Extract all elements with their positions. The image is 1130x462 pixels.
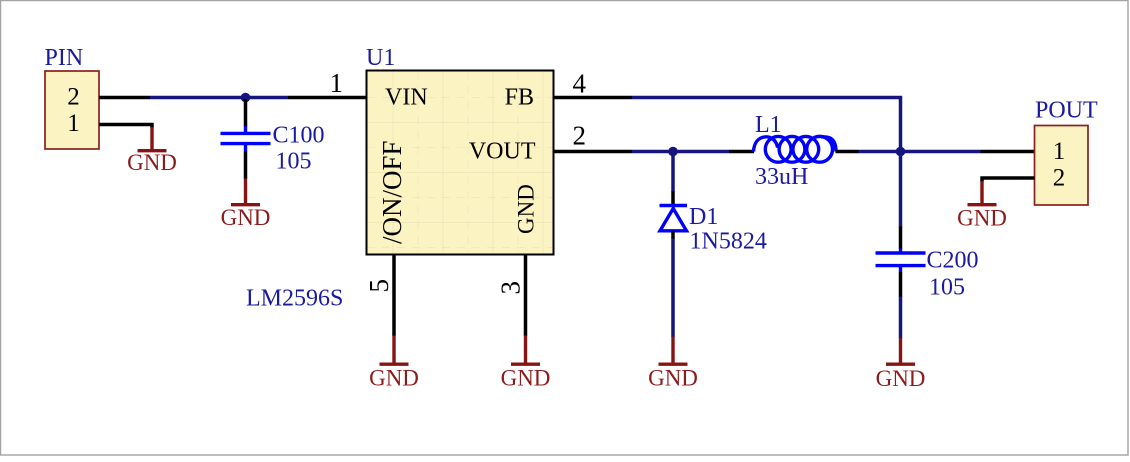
inductor L1 left lead	[729, 150, 754, 154]
svg-text:1: 1	[67, 110, 80, 137]
connector POUT body	[1035, 126, 1089, 206]
diode D1 upper lead	[671, 192, 675, 205]
svg-text:2: 2	[67, 83, 80, 110]
U1 pin 5 lead	[392, 255, 396, 337]
svg-text:GND: GND	[957, 206, 1007, 231]
connector POUT pin 2 lead	[982, 178, 1035, 182]
inductor L1 coil	[754, 136, 837, 162]
svg-text:U1: U1	[366, 45, 395, 71]
wire output node to POUT	[901, 150, 981, 154]
diode D1	[660, 206, 688, 231]
svg-text:1: 1	[1053, 138, 1066, 165]
svg-text:3: 3	[496, 281, 526, 295]
capacitor C200 lower lead	[899, 272, 903, 297]
svg-text:C200: C200	[927, 248, 979, 274]
PIN pin 2 lead	[99, 96, 150, 100]
wire C200 to ground	[899, 297, 903, 339]
svg-text:1N5824: 1N5824	[690, 229, 767, 255]
wire net SW (U1 pin2 to D1/L1)	[632, 150, 729, 154]
wire D1 to ground	[671, 239, 675, 338]
svg-text:L1: L1	[755, 112, 782, 138]
svg-text:VIN: VIN	[385, 85, 428, 111]
svg-text:4: 4	[573, 69, 587, 99]
ground GND7 (POUT pin2)	[957, 181, 1007, 231]
svg-text:FB: FB	[505, 85, 534, 111]
svg-text:33uH: 33uH	[755, 164, 808, 190]
svg-text:C100: C100	[273, 123, 325, 149]
svg-text:1: 1	[330, 68, 344, 98]
inductor L1 right lead	[836, 150, 859, 154]
ground GND3 (U1 pin5)	[369, 336, 419, 391]
ground GND2 (C100)	[221, 179, 271, 231]
capacitor C200 upper lead	[899, 227, 903, 250]
svg-text:POUT: POUT	[1035, 98, 1098, 124]
U1 pin 3 lead	[524, 255, 528, 337]
svg-text:105: 105	[929, 275, 965, 301]
wire net VIN (PIN to U1)	[150, 96, 288, 100]
U1 pin 4 lead	[554, 96, 633, 100]
capacitor C100 lower lead	[244, 152, 248, 180]
svg-text:2: 2	[573, 121, 587, 151]
node junction at D1 tap	[668, 147, 678, 157]
ground GND1 (PIN pin1)	[127, 127, 177, 175]
U1 body grid	[367, 71, 553, 254]
svg-text:GND: GND	[876, 366, 926, 391]
connector POUT pin 1 lead	[981, 150, 1035, 154]
U1 pin 2 lead	[554, 150, 633, 154]
ground GND6 (C200)	[876, 338, 926, 391]
wire net FB (U1 pin4 to output node)	[632, 98, 901, 150]
svg-text:PIN: PIN	[45, 45, 84, 71]
node junction output	[896, 147, 906, 157]
wire from junction down to D1	[671, 153, 675, 192]
ground GND4 (U1 pin3)	[501, 336, 551, 391]
svg-text:VOUT: VOUT	[469, 139, 536, 165]
svg-text:5: 5	[364, 279, 394, 293]
capacitor C200	[876, 249, 926, 273]
PIN pin 1 lead	[99, 125, 152, 129]
IC U1 body	[367, 71, 554, 255]
U1 pin 1 lead	[288, 96, 367, 100]
capacitor C100	[221, 126, 271, 152]
svg-text:GND: GND	[221, 205, 271, 230]
svg-text:/ON/OFF: /ON/OFF	[377, 140, 407, 244]
diode D1 lower lead	[671, 231, 675, 239]
node junction at C100 tap	[241, 93, 251, 103]
wire L1 to output node	[859, 150, 901, 154]
svg-text:105: 105	[276, 149, 312, 175]
svg-text:GND: GND	[648, 366, 698, 391]
svg-text:GND: GND	[127, 150, 177, 175]
svg-text:LM2596S: LM2596S	[246, 286, 343, 312]
svg-text:D1: D1	[689, 204, 718, 230]
svg-text:GND: GND	[369, 366, 419, 391]
svg-text:2: 2	[1053, 164, 1066, 191]
capacitor C100 upper lead	[244, 99, 248, 127]
svg-text:GND: GND	[514, 184, 539, 234]
wire output node down to C200	[899, 153, 903, 227]
ground GND5 (D1)	[648, 337, 698, 391]
connector PIN body	[45, 71, 99, 149]
svg-text:GND: GND	[501, 366, 551, 391]
